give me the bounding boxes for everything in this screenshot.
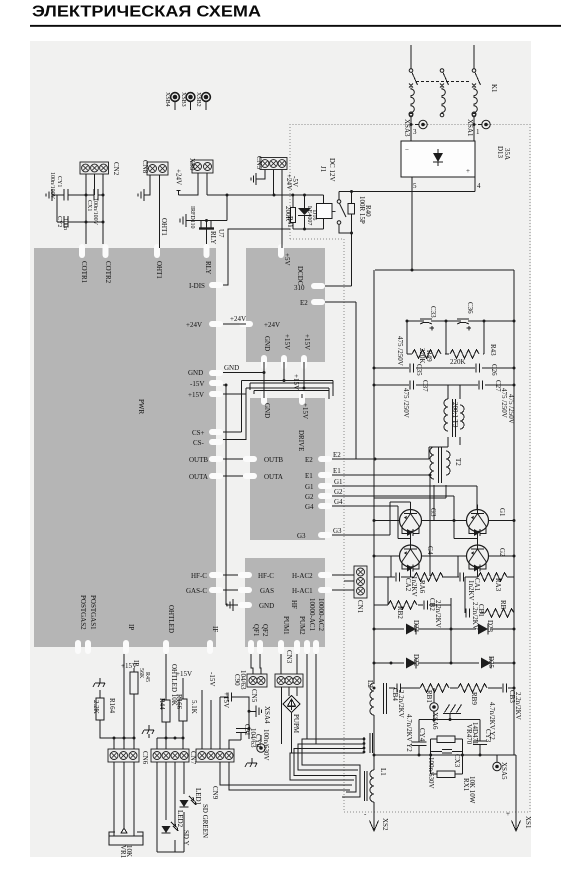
- svg-text:CY4: CY4: [418, 728, 426, 742]
- svg-text:H-AC2: H-AC2: [292, 572, 313, 580]
- svg-text:RA6: RA6: [418, 580, 426, 594]
- svg-text:4.7n/2KV Y2: 4.7n/2KV Y2: [405, 714, 413, 752]
- svg-text:+5V: +5V: [283, 253, 291, 266]
- svg-text:CY1: CY1: [56, 176, 62, 187]
- svg-text:R49: R49: [425, 350, 433, 362]
- svg-text:LED2: LED2: [176, 810, 184, 828]
- svg-text:+15V: +15V: [222, 692, 230, 708]
- svg-text:OHT1: OHT1: [160, 218, 168, 236]
- svg-text:220K: 220K: [450, 358, 466, 366]
- svg-text:G2: G2: [334, 488, 343, 496]
- svg-text:-5V: -5V: [291, 176, 299, 187]
- svg-text:IRFD110: IRFD110: [189, 206, 195, 228]
- svg-text:G3: G3: [297, 532, 306, 540]
- svg-text:C33: C33: [429, 306, 437, 318]
- svg-text:E1: E1: [333, 467, 341, 475]
- svg-text:10000-AC2: 10000-AC2: [317, 598, 325, 632]
- svg-text:DRIVE: DRIVE: [297, 430, 305, 451]
- svg-text:100n/630V: 100n/630V: [262, 729, 270, 761]
- svg-text:CN6: CN6: [141, 751, 149, 765]
- svg-text:D25: D25: [487, 656, 495, 669]
- svg-text:GND: GND: [224, 364, 239, 372]
- svg-text:475 /250V: 475 /250V: [500, 388, 508, 418]
- svg-text:2.2n/2KV: 2.2n/2KV: [514, 692, 522, 720]
- svg-text:HF-C: HF-C: [191, 572, 207, 580]
- svg-text:RB1: RB1: [425, 690, 433, 703]
- svg-text:+24V: +24V: [230, 315, 246, 323]
- svg-text:XSA4: XSA4: [263, 706, 271, 724]
- svg-text:COTR1: COTR1: [80, 261, 88, 284]
- svg-text:E2: E2: [305, 456, 313, 464]
- svg-text:GND: GND: [188, 369, 203, 377]
- svg-text:OHTLED: OHTLED: [167, 605, 175, 633]
- svg-text:100n/100V: 100n/100V: [49, 172, 55, 200]
- svg-text:SD GREEN: SD GREEN: [201, 804, 209, 838]
- svg-text:DC 12V: DC 12V: [328, 158, 336, 182]
- svg-text:OHT1: OHT1: [155, 261, 163, 279]
- svg-text:RB: RB: [499, 600, 507, 610]
- svg-text:10K 10W: 10K 10W: [468, 776, 476, 804]
- svg-text:C26: C26: [490, 364, 498, 376]
- svg-text:200:1 T3: 200:1 T3: [451, 402, 459, 428]
- svg-text:E2: E2: [333, 451, 341, 459]
- svg-text:R41: R41: [286, 216, 294, 228]
- svg-text:475 /250V: 475 /250V: [396, 336, 404, 366]
- svg-text:OUTB: OUTB: [264, 456, 283, 464]
- svg-text:RLY: RLY: [204, 261, 212, 274]
- svg-text:OUTA: OUTA: [189, 473, 208, 481]
- svg-text:2.2n/2KV: 2.2n/2KV: [434, 600, 442, 628]
- svg-text:SD Y: SD Y: [182, 830, 190, 846]
- svg-text:XSA5: XSA5: [500, 762, 508, 780]
- svg-text:3: 3: [413, 128, 417, 136]
- svg-text:CN1: CN1: [356, 600, 364, 614]
- svg-text:T2: T2: [454, 458, 462, 466]
- svg-text:1: 1: [476, 128, 480, 136]
- svg-text:100n/100V: 100n/100V: [92, 198, 98, 226]
- svg-text:GAS-C: GAS-C: [186, 587, 207, 595]
- svg-text:D24: D24: [412, 620, 420, 633]
- svg-text:G2: G2: [498, 548, 506, 557]
- svg-text:PUM1: PUM1: [282, 616, 290, 635]
- svg-text:OUTB: OUTB: [189, 456, 208, 464]
- svg-text:XSA1: XSA1: [466, 119, 474, 137]
- svg-text:J1: J1: [319, 166, 327, 173]
- svg-text:5.1K: 5.1K: [190, 700, 198, 714]
- svg-text:CN7: CN7: [189, 751, 197, 765]
- svg-text:+15V: +15V: [301, 403, 309, 419]
- svg-text:CN5: CN5: [255, 156, 263, 170]
- svg-text:R44: R44: [158, 698, 166, 710]
- svg-text:CS-: CS-: [193, 439, 205, 447]
- svg-text:H-AC1: H-AC1: [292, 587, 313, 595]
- svg-text:220K: 220K: [418, 348, 426, 364]
- svg-text:QF1: QF1: [252, 624, 260, 637]
- svg-text:XSB2: XSB2: [195, 92, 201, 107]
- svg-text:RB2: RB2: [396, 606, 404, 619]
- svg-text:U7: U7: [217, 229, 225, 238]
- svg-text:G2: G2: [305, 493, 314, 501]
- svg-text:G1: G1: [334, 478, 343, 486]
- svg-text:35A: 35A: [503, 148, 511, 160]
- svg-text:LED1: LED1: [194, 788, 202, 806]
- svg-text:R43: R43: [489, 344, 497, 356]
- svg-text:CN5: CN5: [250, 689, 258, 703]
- svg-text:1n2KV: 1n2KV: [410, 576, 418, 597]
- svg-text:D23: D23: [486, 620, 494, 633]
- svg-text:XS9: XS9: [188, 158, 196, 171]
- svg-text:G4: G4: [305, 503, 314, 511]
- svg-text:-15V: -15V: [208, 672, 216, 686]
- svg-text:CA1: CA1: [473, 578, 481, 592]
- svg-text:XSB4: XSB4: [164, 92, 170, 107]
- svg-text:L2: L2: [366, 680, 374, 688]
- svg-text:R164: R164: [108, 698, 116, 714]
- svg-text:10K: 10K: [125, 845, 133, 857]
- svg-text:RB9: RB9: [470, 692, 478, 705]
- svg-text:HF: HF: [290, 600, 298, 609]
- svg-text:XS2: XS2: [381, 818, 389, 831]
- svg-text:D16: D16: [311, 210, 317, 220]
- svg-text:C35: C35: [415, 364, 423, 376]
- svg-text:CY2: CY2: [56, 216, 62, 227]
- svg-text:R40: R40: [364, 205, 372, 217]
- svg-text:+: +: [466, 167, 470, 175]
- svg-text:2.2K: 2.2K: [92, 700, 100, 714]
- svg-text:XS1: XS1: [524, 816, 532, 829]
- svg-text:HF-C: HF-C: [258, 572, 274, 580]
- svg-text:PUM2: PUM2: [298, 616, 306, 635]
- svg-text:I-DIS: I-DIS: [189, 282, 205, 290]
- svg-text:104/63: 104/63: [239, 670, 247, 690]
- svg-text:−: −: [405, 146, 409, 154]
- svg-text:CN2: CN2: [112, 162, 120, 176]
- svg-text:RA3: RA3: [494, 578, 502, 592]
- svg-text:E2: E2: [300, 299, 308, 307]
- svg-text:IF: IF: [211, 626, 219, 632]
- svg-text:4.7n/2KV Y2: 4.7n/2KV Y2: [488, 702, 496, 740]
- svg-text:CN8: CN8: [141, 160, 149, 174]
- svg-text:4: 4: [477, 182, 481, 190]
- svg-text:CY0: CY0: [254, 734, 262, 748]
- svg-text:XSA3: XSA3: [403, 119, 411, 137]
- svg-text:CS+: CS+: [192, 429, 205, 437]
- svg-text:E1: E1: [305, 472, 313, 480]
- svg-text:G1: G1: [305, 483, 314, 491]
- svg-text:+15V: +15V: [283, 334, 291, 350]
- svg-text:G3: G3: [333, 527, 342, 535]
- svg-text:PUPM: PUPM: [292, 714, 300, 734]
- svg-text:C37: C37: [421, 380, 429, 392]
- svg-text:2.2n/2KV: 2.2n/2KV: [397, 690, 405, 718]
- svg-text:D22: D22: [412, 654, 420, 667]
- svg-text:+15V: +15V: [121, 662, 137, 670]
- svg-text:GND: GND: [263, 336, 271, 351]
- svg-text:QF2: QF2: [261, 624, 269, 637]
- svg-text:CN3: CN3: [285, 650, 293, 664]
- svg-text:L1: L1: [379, 768, 387, 776]
- svg-text:IP: IP: [127, 624, 135, 630]
- svg-text:DCDC: DCDC: [296, 266, 304, 286]
- svg-text:G1: G1: [498, 508, 506, 517]
- svg-text:475 /250V: 475 /250V: [402, 388, 410, 418]
- svg-text:G4: G4: [426, 546, 434, 555]
- svg-text:56K: 56K: [138, 668, 144, 679]
- svg-text:14D471: 14D471: [471, 722, 479, 745]
- svg-text:POSTGAS2: POSTGAS2: [79, 595, 87, 630]
- svg-text:RLY: RLY: [209, 231, 217, 244]
- svg-text:GND: GND: [263, 403, 271, 418]
- svg-text:+24V: +24V: [175, 169, 183, 185]
- svg-text:OUTA: OUTA: [264, 473, 283, 481]
- svg-text:XSA6: XSA6: [431, 712, 439, 730]
- svg-text:475 /250V: 475 /250V: [507, 394, 515, 424]
- svg-text:310: 310: [294, 284, 305, 292]
- svg-text:+: +: [506, 810, 510, 818]
- svg-text:CX1: CX1: [86, 200, 92, 211]
- svg-text:K1: K1: [490, 84, 498, 93]
- svg-text:100n/630V: 100n/630V: [427, 757, 435, 789]
- svg-text:+15V: +15V: [303, 334, 311, 350]
- svg-text:5: 5: [413, 182, 417, 190]
- svg-text:D13: D13: [496, 146, 504, 159]
- svg-text:CB1: CB1: [477, 604, 485, 617]
- svg-text:-15V: -15V: [190, 380, 204, 388]
- svg-text:GAS: GAS: [260, 587, 274, 595]
- svg-text:R45: R45: [144, 672, 150, 682]
- svg-text:+24V: +24V: [264, 321, 280, 329]
- svg-text:100n: 100n: [62, 218, 68, 230]
- svg-text:ЭЛЕКТРИЧЕСКАЯ СХЕМА: ЭЛЕКТРИЧЕСКАЯ СХЕМА: [32, 4, 261, 21]
- svg-text:R166: R166: [175, 694, 183, 710]
- svg-text:GND: GND: [259, 602, 274, 610]
- svg-text:+24V: +24V: [186, 321, 202, 329]
- svg-text:XSB3: XSB3: [180, 92, 186, 107]
- svg-text:CX3: CX3: [453, 754, 461, 768]
- svg-text:POSTGAS1: POSTGAS1: [89, 595, 97, 630]
- svg-text:PWR: PWR: [137, 399, 145, 415]
- svg-text:10000-AC1: 10000-AC1: [308, 598, 316, 632]
- svg-text:G3: G3: [429, 508, 437, 517]
- svg-text:CN9: CN9: [211, 786, 219, 800]
- svg-text:+15V: +15V: [188, 391, 204, 399]
- svg-text:COTR2: COTR2: [104, 261, 112, 284]
- svg-text:C36: C36: [466, 302, 474, 314]
- svg-text:G4: G4: [334, 498, 343, 506]
- svg-text:+15V: +15V: [292, 374, 300, 390]
- svg-text:+15V: +15V: [176, 670, 192, 678]
